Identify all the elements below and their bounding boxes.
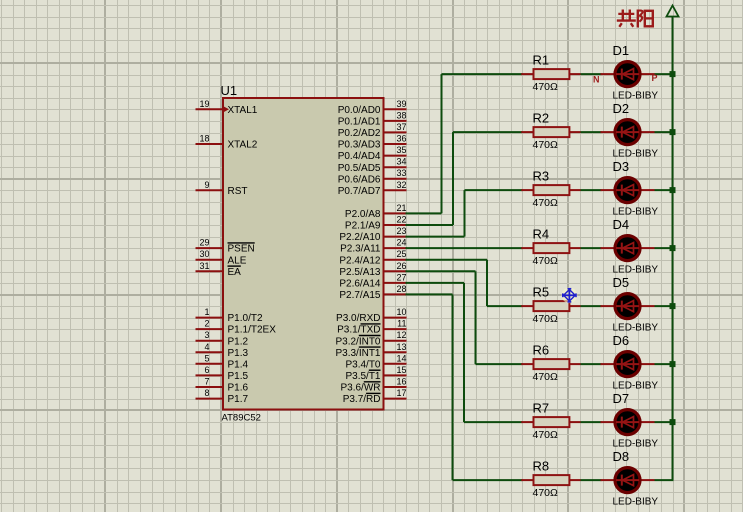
svg-text:R6: R6 — [533, 342, 550, 357]
svg-text:470Ω: 470Ω — [533, 139, 559, 151]
svg-text:P3.0/RXD: P3.0/RXD — [336, 313, 380, 324]
svg-text:3: 3 — [204, 330, 209, 340]
svg-text:P3.6/WR: P3.6/WR — [340, 383, 380, 394]
svg-text:1: 1 — [204, 307, 209, 317]
svg-text:27: 27 — [396, 272, 406, 282]
svg-text:P3.4/T0: P3.4/T0 — [345, 359, 380, 370]
svg-text:36: 36 — [396, 134, 406, 144]
svg-text:D2: D2 — [613, 101, 630, 116]
svg-text:EA: EA — [228, 267, 242, 278]
svg-text:12: 12 — [396, 330, 406, 340]
svg-text:D8: D8 — [613, 449, 630, 464]
svg-text:P: P — [652, 73, 658, 83]
svg-text:P3.1/TXD: P3.1/TXD — [337, 325, 380, 336]
svg-text:23: 23 — [396, 226, 406, 236]
svg-text:470Ω: 470Ω — [533, 313, 559, 325]
svg-text:470Ω: 470Ω — [533, 255, 559, 267]
svg-text:31: 31 — [199, 261, 209, 271]
svg-text:D4: D4 — [613, 217, 630, 232]
svg-text:D3: D3 — [613, 159, 630, 174]
svg-text:P2.5/A13: P2.5/A13 — [339, 267, 381, 278]
svg-text:R4: R4 — [533, 226, 550, 241]
svg-text:470Ω: 470Ω — [533, 487, 559, 499]
svg-text:9: 9 — [204, 180, 209, 190]
svg-text:D6: D6 — [613, 333, 630, 348]
svg-text:5: 5 — [204, 353, 209, 363]
svg-text:U1: U1 — [221, 83, 238, 98]
svg-text:P0.2/AD2: P0.2/AD2 — [338, 128, 381, 139]
svg-text:7: 7 — [204, 377, 209, 387]
svg-text:XTAL2: XTAL2 — [228, 140, 258, 151]
svg-text:24: 24 — [396, 238, 406, 248]
svg-text:P2.7/A15: P2.7/A15 — [339, 290, 381, 301]
svg-text:P3.3/INT1: P3.3/INT1 — [335, 348, 380, 359]
svg-text:14: 14 — [396, 353, 406, 363]
svg-text:18: 18 — [199, 134, 209, 144]
svg-text:P1.2: P1.2 — [228, 336, 249, 347]
svg-text:470Ω: 470Ω — [533, 371, 559, 383]
svg-text:P2.3/A11: P2.3/A11 — [340, 244, 381, 255]
svg-text:D1: D1 — [613, 43, 630, 58]
svg-text:P3.5/T1: P3.5/T1 — [345, 371, 380, 382]
svg-text:R3: R3 — [533, 168, 550, 183]
svg-text:17: 17 — [396, 388, 406, 398]
svg-text:N: N — [593, 75, 600, 85]
svg-text:D7: D7 — [613, 391, 630, 406]
svg-text:32: 32 — [396, 180, 406, 190]
svg-text:10: 10 — [396, 307, 406, 317]
svg-text:470Ω: 470Ω — [533, 429, 559, 441]
svg-text:39: 39 — [396, 99, 406, 109]
svg-text:470Ω: 470Ω — [533, 81, 559, 93]
svg-text:P2.6/A14: P2.6/A14 — [339, 279, 381, 290]
svg-text:P2.1/A9: P2.1/A9 — [345, 221, 381, 232]
svg-text:R2: R2 — [533, 110, 550, 125]
svg-text:470Ω: 470Ω — [533, 197, 559, 209]
svg-text:P3.7/RD: P3.7/RD — [343, 394, 381, 405]
svg-text:8: 8 — [204, 388, 209, 398]
svg-text:P1.7: P1.7 — [228, 394, 249, 405]
svg-text:4: 4 — [204, 342, 209, 352]
svg-text:P1.6: P1.6 — [228, 383, 249, 394]
svg-text:P0.6/AD6: P0.6/AD6 — [338, 174, 381, 185]
svg-text:35: 35 — [396, 145, 406, 155]
svg-text:30: 30 — [199, 249, 209, 259]
svg-text:P3.2/INT0: P3.2/INT0 — [335, 336, 380, 347]
svg-text:R5: R5 — [533, 284, 550, 299]
svg-text:25: 25 — [396, 249, 406, 259]
svg-text:26: 26 — [396, 261, 406, 271]
svg-text:P2.4/A12: P2.4/A12 — [339, 255, 381, 266]
svg-text:21: 21 — [396, 203, 406, 213]
svg-text:34: 34 — [396, 157, 406, 167]
svg-text:P0.7/AD7: P0.7/AD7 — [338, 186, 381, 197]
svg-text:P2.2/A10: P2.2/A10 — [339, 232, 381, 243]
svg-text:PSEN: PSEN — [228, 244, 255, 255]
svg-text:P0.5/AD5: P0.5/AD5 — [338, 163, 381, 174]
svg-text:11: 11 — [397, 319, 406, 329]
svg-text:29: 29 — [199, 238, 209, 248]
svg-text:6: 6 — [204, 365, 209, 375]
svg-text:R1: R1 — [533, 52, 550, 67]
svg-text:R7: R7 — [533, 400, 550, 415]
svg-text:19: 19 — [199, 99, 209, 109]
svg-text:D5: D5 — [613, 275, 630, 290]
svg-text:P0.3/AD3: P0.3/AD3 — [338, 140, 381, 151]
svg-text:22: 22 — [396, 215, 406, 225]
svg-text:16: 16 — [396, 377, 406, 387]
svg-text:P0.0/AD0: P0.0/AD0 — [338, 105, 381, 116]
svg-text:RST: RST — [228, 186, 248, 197]
svg-text:P0.4/AD4: P0.4/AD4 — [338, 151, 381, 162]
svg-text:XTAL1: XTAL1 — [228, 105, 258, 116]
svg-text:P1.5: P1.5 — [228, 371, 249, 382]
svg-text:33: 33 — [396, 168, 406, 178]
svg-text:ALE: ALE — [228, 255, 247, 266]
svg-text:P0.1/AD1: P0.1/AD1 — [338, 117, 381, 128]
svg-text:LED-BIBY: LED-BIBY — [613, 497, 659, 508]
svg-text:13: 13 — [396, 342, 406, 352]
svg-text:2: 2 — [204, 319, 209, 329]
svg-text:P1.3: P1.3 — [228, 348, 249, 359]
svg-text:P1.1/T2EX: P1.1/T2EX — [228, 325, 277, 336]
svg-text:P1.4: P1.4 — [228, 359, 249, 370]
svg-text:P2.0/A8: P2.0/A8 — [345, 209, 381, 220]
svg-text:38: 38 — [396, 110, 406, 120]
svg-text:28: 28 — [396, 284, 406, 294]
svg-text:15: 15 — [396, 365, 406, 375]
svg-text:R8: R8 — [533, 458, 550, 473]
svg-text:AT89C52: AT89C52 — [222, 412, 261, 423]
svg-text:37: 37 — [396, 122, 406, 132]
svg-text:P1.0/T2: P1.0/T2 — [228, 313, 263, 324]
